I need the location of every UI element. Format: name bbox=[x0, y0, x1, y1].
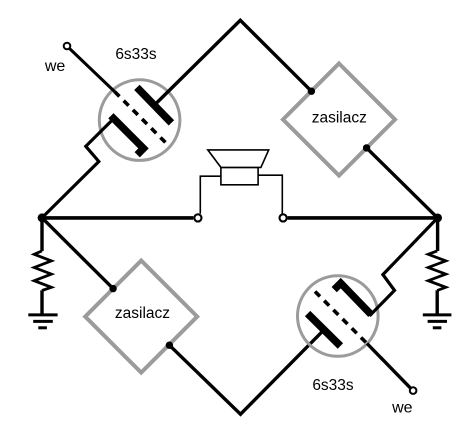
anode (plate) of V2 bbox=[308, 314, 341, 346]
wire: PS1 lower dot to right node bbox=[367, 148, 438, 218]
wire: right node down to resistor R2 bbox=[436, 218, 439, 251]
svg-text:zasilacz: zasilacz bbox=[115, 305, 170, 322]
svg-text:zasilacz: zasilacz bbox=[312, 110, 367, 127]
input terminal we (top-left) bbox=[64, 43, 71, 50]
svg-text:we: we bbox=[44, 58, 66, 75]
wire: left node to PS2 upper dot bbox=[42, 218, 113, 289]
grid of V2 (dashed) bbox=[315, 292, 367, 344]
junction dot on PS1 lower-right edge bbox=[363, 144, 370, 151]
wire: R2 to ground bbox=[436, 290, 439, 313]
wire: V1 cathode lead with jog down to left node bbox=[42, 119, 113, 217]
wire: top node to PS1 upper dot junction bbox=[308, 88, 315, 95]
speaker LS1 cone bbox=[208, 150, 269, 168]
tube V1 envelope (6s33s, top-left) bbox=[99, 80, 180, 161]
cathode of V1 bbox=[111, 116, 144, 155]
svg-text:we: we bbox=[391, 400, 413, 417]
wire: left node down to resistor R1 bbox=[40, 218, 43, 251]
speaker LS1 right lead bbox=[258, 175, 282, 214]
wire: R1 to ground bbox=[40, 290, 43, 313]
grid lead of V1 from input we bbox=[70, 49, 115, 92]
junction dot right node bbox=[433, 214, 442, 223]
tube V2 envelope (6s33s, bottom-right) bbox=[298, 276, 379, 357]
svg-text:6s33s: 6s33s bbox=[312, 377, 354, 394]
wire: V1 plate lead to top node and on to PS1 bbox=[154, 20, 311, 105]
grid of V1 (dashed) bbox=[115, 92, 166, 143]
cathode of V2 bbox=[334, 283, 371, 314]
input terminal we (bottom-right) bbox=[410, 387, 417, 394]
anode (plate) of V1 bbox=[137, 87, 172, 123]
resistor R2 (right) bbox=[428, 251, 446, 291]
junction dot on PS2 upper-left edge bbox=[109, 285, 116, 292]
power supply PS1 (zasilacz, top-right diamond) bbox=[283, 64, 395, 176]
wire: right node with jog to V2 cathode lead bbox=[370, 218, 438, 316]
ground (right) bbox=[423, 313, 452, 316]
speaker terminal left (open circle) bbox=[194, 214, 201, 221]
speaker LS1 left lead bbox=[200, 176, 221, 214]
junction dot on PS2 lower-right edge bbox=[166, 342, 173, 349]
grid lead of V2 to input we bbox=[367, 344, 410, 388]
wire: PS2 lower dot to bottom node and on to V2 plate bbox=[169, 330, 324, 414]
ground (left) bbox=[28, 313, 57, 316]
wire: left node to left speaker terminal bbox=[42, 216, 193, 220]
junction dot left node bbox=[38, 213, 47, 222]
wire: right speaker terminal to right node bbox=[288, 216, 438, 220]
power supply PS2 (zasilacz, bottom-left diamond) bbox=[85, 261, 197, 373]
speaker terminal right (open circle) bbox=[280, 214, 287, 221]
resistor R1 (left) bbox=[34, 251, 51, 291]
svg-text:6s33s: 6s33s bbox=[115, 46, 157, 63]
speaker LS1 body bbox=[221, 167, 258, 184]
